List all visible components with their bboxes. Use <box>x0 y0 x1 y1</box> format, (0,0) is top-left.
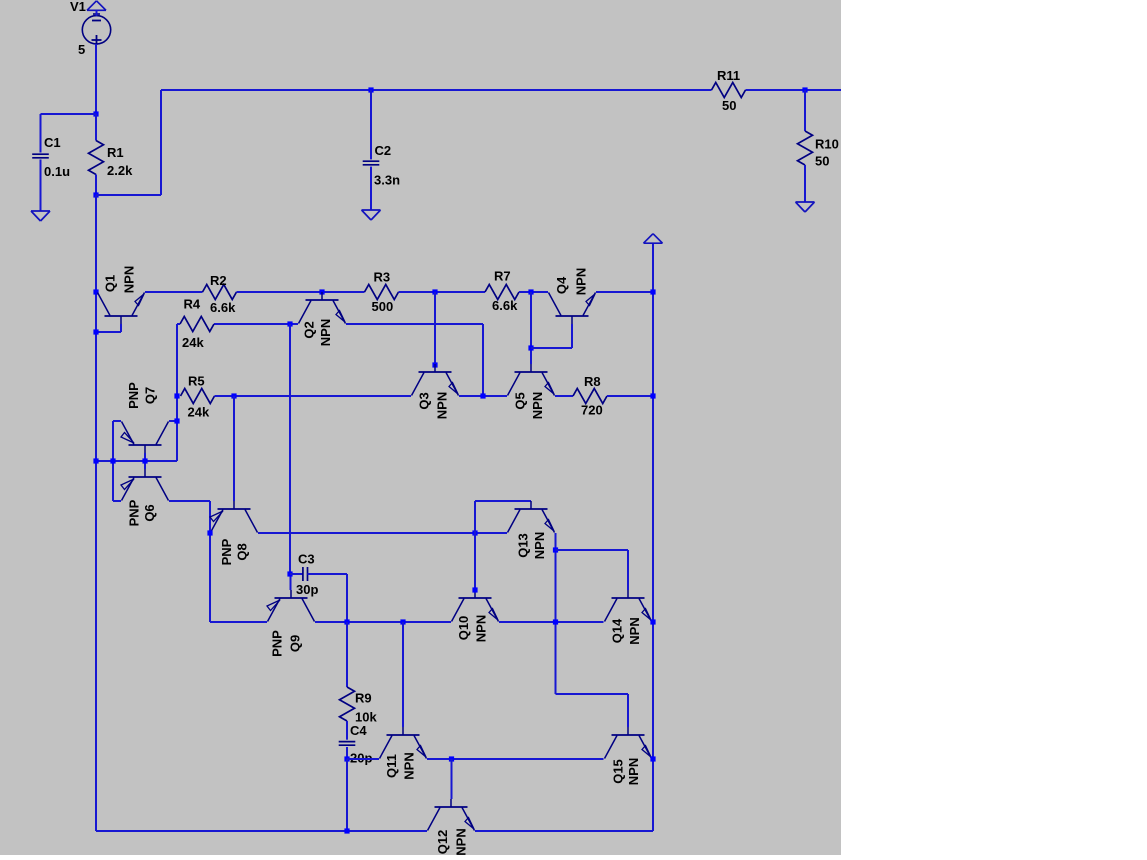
node R4 / Q2 collector / C3 column <box>287 321 292 326</box>
wire Q2 emitter run <box>346 324 483 396</box>
svg-text:Q12: Q12 <box>435 830 450 855</box>
transistor Q2 (NPN) <box>299 292 346 346</box>
wire Q11 collector lead <box>347 758 379 760</box>
wire Q11 emitter run <box>427 758 604 760</box>
svg-text:C1: C1 <box>44 135 61 150</box>
node A (V1/R1/C1) <box>93 111 98 116</box>
wire C1 top lead <box>40 114 42 153</box>
svg-text:NPN: NPN <box>435 392 450 419</box>
wire V1 to node A <box>95 44 97 114</box>
wire Q3 emitter run <box>459 395 507 397</box>
resistor R9 <box>340 687 378 725</box>
schematic canvas background <box>0 0 841 855</box>
wire riser to top rail <box>160 90 162 195</box>
wire Q8 collector run <box>258 532 507 534</box>
wire R5 to Q3 <box>215 395 412 397</box>
svg-text:NPN: NPN <box>318 319 333 346</box>
svg-text:C2: C2 <box>375 143 392 158</box>
wire left rail <box>95 195 97 831</box>
ground below C1 <box>31 211 50 221</box>
svg-text:Q10: Q10 <box>456 616 471 641</box>
svg-text:Q3: Q3 <box>417 392 432 409</box>
svg-text:Q14: Q14 <box>610 618 625 643</box>
svg-text:C4: C4 <box>350 723 367 738</box>
resistor R10 <box>798 131 839 169</box>
wire R8 to right rail <box>607 395 653 397</box>
node emitter column bias tap <box>110 458 115 463</box>
wire Q7 collector jog <box>169 420 177 422</box>
wire C1 bottom lead <box>40 160 42 212</box>
wire R10 bottom lead <box>804 165 806 202</box>
svg-text:PNP: PNP <box>127 499 142 526</box>
resistor R3 <box>365 270 399 315</box>
transistor Q10 (NPN) <box>452 590 499 642</box>
svg-text:R1: R1 <box>107 145 124 160</box>
wire C3 left lead <box>290 573 303 575</box>
wire C4 bottom lead <box>346 747 348 759</box>
wire Q15 emitter tie <box>652 758 654 760</box>
svg-text:NPN: NPN <box>402 752 417 779</box>
svg-text:24k: 24k <box>182 335 204 350</box>
svg-text:Q8: Q8 <box>235 543 250 560</box>
node C4 / Q11 collector node <box>344 756 349 761</box>
svg-text:Q7: Q7 <box>143 387 158 404</box>
svg-text:30p: 30p <box>296 582 318 597</box>
capacitor C3 <box>296 552 318 598</box>
svg-text:NPN: NPN <box>530 392 545 419</box>
node Q4 base tap <box>528 345 533 350</box>
wire Q9 collector run <box>315 621 451 623</box>
svg-text:R10: R10 <box>815 137 839 152</box>
svg-text:C3: C3 <box>298 552 315 567</box>
svg-text:R4: R4 <box>184 297 201 312</box>
svg-text:NPN: NPN <box>627 617 642 644</box>
svg-text:2.2k: 2.2k <box>107 163 133 178</box>
svg-text:500: 500 <box>372 299 394 314</box>
node Q8 emitter pin <box>207 530 212 535</box>
wire Q14 base <box>556 550 629 590</box>
wire R1 bottom lead <box>95 175 97 196</box>
node right rail / Q14 emitter <box>650 619 655 624</box>
capacitor C2 <box>363 143 400 188</box>
svg-text:3.3n: 3.3n <box>374 173 400 188</box>
resistor R2 <box>203 273 237 315</box>
wire Q4 emitter to power node <box>596 291 653 293</box>
wire Q5 base column <box>530 292 532 364</box>
wire bias row <box>96 460 177 462</box>
svg-text:R11: R11 <box>717 68 740 83</box>
transistor Q7 (PNP) <box>121 382 169 453</box>
transistor Q6 (PNP) <box>121 469 169 526</box>
transistor Q4 (NPN) <box>549 268 596 324</box>
resistor R11 <box>712 68 746 113</box>
svg-text:V1: V1 <box>70 0 86 14</box>
svg-text:NPN: NPN <box>626 758 641 785</box>
svg-text:Q4: Q4 <box>554 276 569 294</box>
wire R9 top lead <box>346 622 348 687</box>
wire Q7/Q6 base stubs <box>144 453 146 469</box>
svg-text:50: 50 <box>722 98 736 113</box>
wire C2 bottom lead <box>370 167 372 210</box>
node Q11 base column top <box>400 619 405 624</box>
svg-text:PNP: PNP <box>270 630 285 657</box>
transistor Q11 (NPN) <box>380 727 427 780</box>
wire Q4 base <box>531 324 572 348</box>
node Q1 collector on left rail <box>93 289 98 294</box>
wire Q1 emitter to R2 <box>145 291 203 293</box>
node Q3 base pin <box>432 362 437 367</box>
svg-text:R7: R7 <box>494 269 511 284</box>
svg-text:PNP: PNP <box>126 382 141 409</box>
ground below C2 <box>362 210 381 220</box>
svg-text:720: 720 <box>581 403 603 418</box>
node right rail / Q4 emitter <box>650 289 655 294</box>
node Q13 collector-base tie <box>472 530 477 535</box>
wire C2 top lead <box>370 90 372 159</box>
node Q6/Q7 base tie <box>142 458 147 463</box>
capacitor C1 <box>32 135 70 179</box>
voltage source V1 <box>70 0 111 57</box>
node C2 tap on top rail <box>368 87 373 92</box>
resistor R1 <box>89 141 134 179</box>
wire Q6 collector jog <box>169 501 210 622</box>
svg-text:5: 5 <box>78 42 85 57</box>
svg-text:Q11: Q11 <box>384 754 399 778</box>
node C3 left / Q9 base <box>287 571 292 576</box>
wire Q11 base column <box>402 622 404 727</box>
wire Q1 base <box>96 324 121 332</box>
svg-text:R3: R3 <box>374 270 391 285</box>
transistor Q15 (NPN) <box>605 727 652 785</box>
svg-text:NPN: NPN <box>122 266 137 293</box>
resistor R7 <box>485 269 519 314</box>
svg-text:Q1: Q1 <box>103 275 118 292</box>
node Q13 emitter column crossing <box>553 619 558 624</box>
transistor Q3 (NPN) <box>412 364 459 419</box>
node Q11 emitter / Q12 base <box>449 756 454 761</box>
node Q7 collector / R5 column <box>174 418 179 423</box>
node right rail / Q15 emitter <box>650 756 655 761</box>
node right rail / R8 <box>650 393 655 398</box>
wire Q9 emitter run <box>210 621 267 623</box>
transistor Q12 (NPN) <box>428 799 475 856</box>
wire right rail <box>652 243 654 831</box>
node R5/Q8 base column <box>231 393 236 398</box>
node B (R1 bottom) <box>93 192 98 197</box>
ground flag (rotated up) top of right rail <box>644 234 663 244</box>
resistor R5 <box>181 374 215 420</box>
wire Q3 base column <box>434 292 436 364</box>
capacitor C4 <box>339 723 373 766</box>
wire bottom rail left part <box>96 830 427 832</box>
svg-text:50: 50 <box>815 154 829 169</box>
wire Q13 base loop <box>475 501 531 590</box>
svg-text:Q15: Q15 <box>610 759 625 784</box>
ground flag (rotated up) at V1 top <box>87 1 106 11</box>
wire C3 column <box>289 324 292 590</box>
transistor Q13 (NPN) <box>508 501 555 559</box>
svg-text:NPN: NPN <box>474 615 489 642</box>
svg-text:NPN: NPN <box>454 828 469 855</box>
wire Q14 emitter tie <box>652 621 654 623</box>
wire Q10 emitter run <box>499 621 604 623</box>
wire Q12 base column <box>451 759 453 799</box>
wire V1 top stub <box>96 10 98 16</box>
node Q2 base node <box>319 289 324 294</box>
svg-text:Q13: Q13 <box>516 533 531 558</box>
node Q1 base to left rail <box>93 329 98 334</box>
node R5 left end <box>174 393 179 398</box>
svg-text:R2: R2 <box>210 273 227 288</box>
svg-text:R8: R8 <box>584 374 601 389</box>
wire Q7 emitter jog <box>113 421 121 501</box>
svg-text:NPN: NPN <box>532 532 547 559</box>
svg-text:Q6: Q6 <box>142 504 157 521</box>
transistor Q5 (NPN) <box>508 364 555 419</box>
wire bottom rail right part <box>475 830 653 832</box>
wire R2 to R3 <box>237 291 365 293</box>
wire R3 to R7 <box>399 291 486 293</box>
transistor Q8 (PNP) <box>210 501 258 565</box>
resistor R8 <box>573 374 607 418</box>
svg-text:R5: R5 <box>188 374 205 389</box>
wire Q15 base path <box>556 694 629 727</box>
wire R4 left to R5 column <box>177 324 180 461</box>
svg-text:Q9: Q9 <box>288 635 303 652</box>
node R11/R10 (output) <box>802 87 807 92</box>
resistor R4 <box>180 297 214 351</box>
svg-text:6.6k: 6.6k <box>210 300 236 315</box>
node left rail bias tap <box>93 458 98 463</box>
wire down to bottom rail <box>346 759 348 831</box>
wire R10 top lead <box>804 90 806 131</box>
wire node B to riser <box>96 194 161 196</box>
svg-text:PNP: PNP <box>219 538 234 565</box>
node bottom rail tap <box>344 828 349 833</box>
svg-text:0.1u: 0.1u <box>44 164 70 179</box>
svg-text:R9: R9 <box>355 691 372 706</box>
svg-text:NPN: NPN <box>574 268 589 295</box>
node Q10 base pin <box>472 587 477 592</box>
transistor Q14 (NPN) <box>605 590 652 645</box>
svg-text:Q5: Q5 <box>513 392 528 409</box>
transistor Q9 (PNP) <box>267 590 315 657</box>
node Q4/Q5 base column top <box>528 289 533 294</box>
wire R9 to C4 <box>346 721 348 740</box>
node C3/R9 column at signal row <box>344 619 349 624</box>
transistor Q1 (NPN) <box>98 266 145 324</box>
wire top rail left part <box>161 89 712 91</box>
svg-text:24k: 24k <box>188 405 210 420</box>
wire R7 to Q4 <box>519 291 548 293</box>
wire Q13 emitter column <box>555 533 557 694</box>
wire Q8 base column <box>233 396 235 501</box>
wire Q5 emitter to R8 <box>555 395 573 397</box>
wire R1 top lead <box>95 114 97 141</box>
svg-text:Q2: Q2 <box>302 321 317 338</box>
wire C3 right lead <box>308 574 348 622</box>
wire node A to C1 <box>41 113 97 115</box>
wire R4 output to Q2 collector <box>214 323 298 325</box>
node Q3 base column top <box>432 289 437 294</box>
node Q14 base tap <box>553 547 558 552</box>
ground below R10 <box>796 202 815 212</box>
svg-text:6.6k: 6.6k <box>492 298 518 313</box>
node Q2/Q3 emitter tie <box>480 393 485 398</box>
wire top rail right part <box>746 89 842 91</box>
